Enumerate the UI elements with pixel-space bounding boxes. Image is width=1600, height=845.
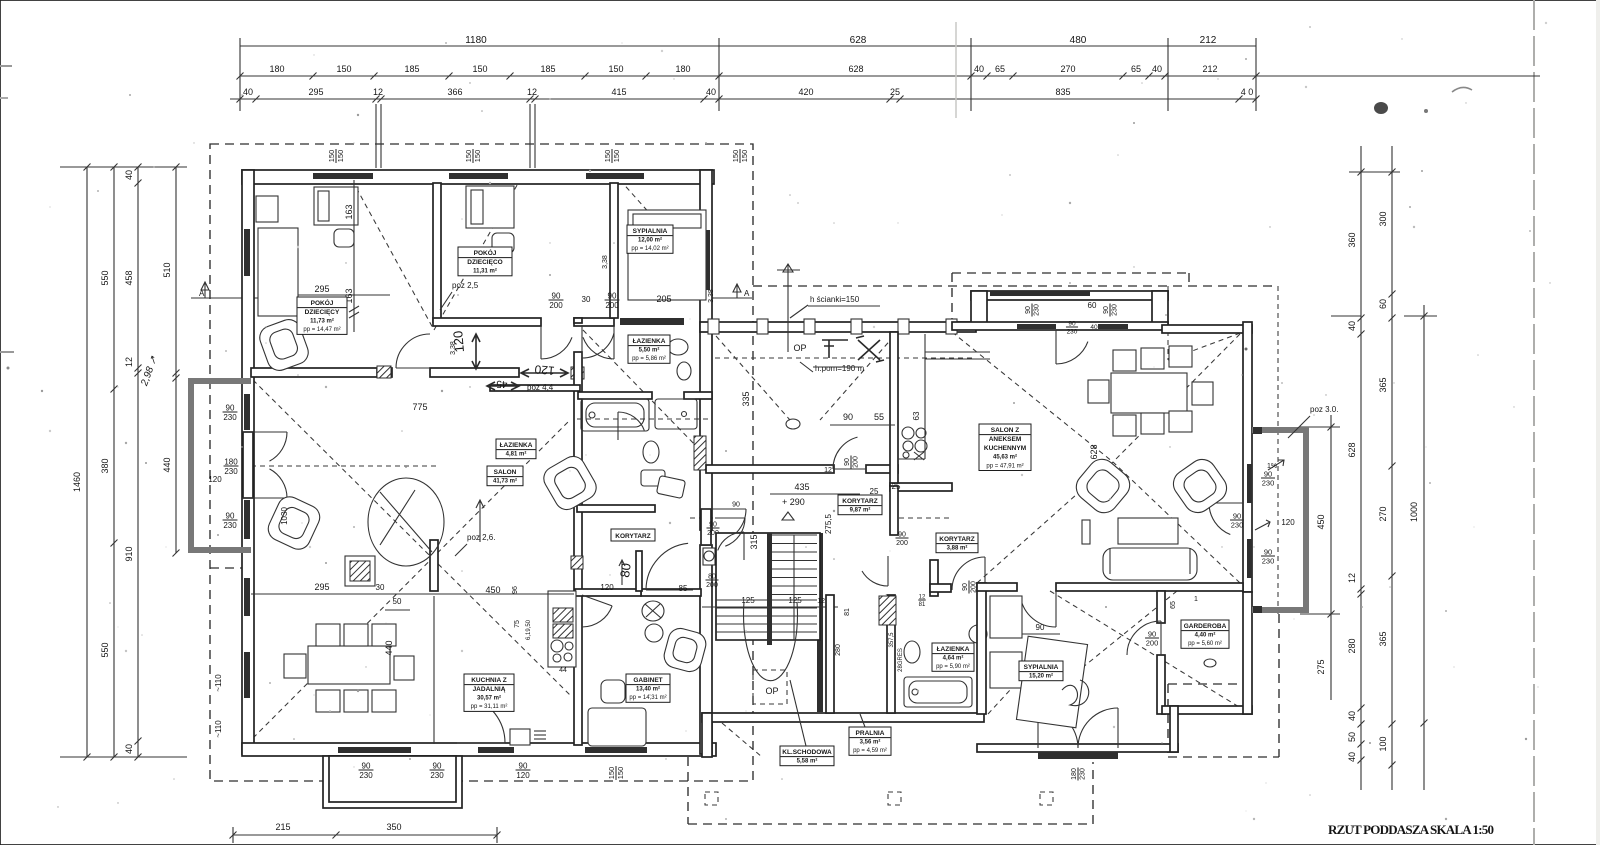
svg-text:15,20 m²: 15,20 m²: [1029, 673, 1053, 680]
gabinet chair: [661, 626, 708, 674]
middle bottom wall: [702, 713, 984, 722]
svg-text:180: 180: [675, 64, 690, 74]
svg-text:4,64 m²: 4,64 m²: [943, 655, 964, 662]
door bath2 from corridor: [617, 412, 619, 440]
wall kitchen-korytarz: [890, 483, 952, 491]
svg-text:150: 150: [731, 150, 740, 163]
svg-text:200: 200: [549, 301, 563, 310]
svg-text:200: 200: [896, 540, 908, 547]
svg-text:12,00 m²: 12,00 m²: [638, 237, 662, 244]
left building right wall: [700, 170, 712, 530]
kl schodowa label: [780, 746, 834, 766]
svg-text:SYPIALNIA: SYPIALNIA: [1024, 664, 1059, 671]
svg-text:65: 65: [1131, 64, 1141, 74]
wardrobe kids1: [258, 228, 298, 316]
middle left lower wall: [702, 713, 712, 757]
svg-text:357,5: 357,5: [889, 632, 895, 648]
svg-text:81: 81: [919, 602, 926, 608]
svg-text:+ 290: + 290: [782, 497, 805, 507]
north inner door: [1055, 330, 1057, 364]
stair treads lower: [716, 599, 817, 601]
left building top wall: [242, 170, 714, 184]
handwritten 120 horizontal arrow: [521, 369, 568, 377]
svg-text:420: 420: [798, 87, 813, 97]
construction line 163: [353, 180, 355, 332]
sypialnia south window sill: [1038, 752, 1118, 759]
svg-text:150: 150: [464, 150, 473, 163]
svg-text:295: 295: [308, 87, 323, 97]
right dim col2: [1360, 146, 1362, 790]
svg-text:150: 150: [603, 150, 612, 163]
svg-text:90: 90: [226, 404, 235, 413]
svg-text:120: 120: [1281, 518, 1295, 527]
tv cabinet right: [1082, 520, 1090, 544]
svg-text:628: 628: [1347, 442, 1357, 457]
svg-text:65: 65: [1170, 601, 1177, 609]
svg-text:835: 835: [1055, 87, 1070, 97]
svg-text:200: 200: [605, 301, 619, 310]
svg-text:200: 200: [1146, 639, 1159, 648]
svg-text:poz 4,4: poz 4,4: [527, 383, 554, 392]
svg-text:9,87 m²: 9,87 m²: [850, 507, 871, 514]
svg-text:90: 90: [844, 458, 851, 466]
door kids room 1: [396, 367, 430, 369]
east door arc: [1209, 502, 1243, 504]
left edge specks: [0, 65, 12, 67]
svg-text:360: 360: [1347, 232, 1357, 247]
top dimension chain row3: [230, 98, 1256, 100]
chimney hatch salon wall: [377, 366, 391, 378]
svg-text:280: 280: [1347, 638, 1357, 653]
svg-text:50: 50: [393, 597, 402, 606]
sypialnia scribble: [1062, 680, 1089, 706]
svg-text:DZIECIĘCO: DZIECIĘCO: [467, 259, 502, 266]
handwritten 45 arrow: [487, 382, 519, 390]
svg-text:270: 270: [1378, 506, 1388, 521]
svg-text:pp = 4,59 m²: pp = 4,59 m²: [853, 748, 887, 754]
svg-text:90: 90: [519, 762, 528, 771]
section marker A right: [706, 297, 752, 299]
stair dim line 125: [702, 606, 838, 608]
svg-text:163: 163: [344, 204, 354, 219]
svg-text:POKÓJ: POKÓJ: [311, 298, 334, 307]
svg-text:OP: OP: [765, 686, 778, 696]
svg-text:125: 125: [741, 596, 755, 605]
desk kids1: [256, 196, 278, 222]
salon round table scribble: [368, 478, 444, 566]
right building east wall: [1243, 322, 1252, 592]
kitchen counter edge: [924, 334, 926, 459]
left building bottom wall: [242, 743, 716, 756]
nightstand kids1: [334, 229, 354, 247]
svg-text:1180: 1180: [465, 35, 487, 46]
room label pokoj dzieciecy 1: [297, 297, 347, 334]
left dim col4: [175, 167, 177, 553]
left dim col3: [137, 167, 139, 757]
svg-text:96: 96: [512, 586, 519, 594]
svg-text:pp = 14,47 m²: pp = 14,47 m²: [303, 327, 340, 333]
svg-text:40: 40: [124, 170, 134, 180]
svg-text:300: 300: [1378, 211, 1388, 226]
shower hatch: [694, 436, 706, 470]
svg-text:40: 40: [1347, 752, 1357, 762]
left dim top ticks horizontal: [60, 166, 187, 168]
salon armchair1: [264, 493, 323, 553]
salon south door: [1055, 591, 1057, 627]
terrace bottom-left: [323, 756, 462, 808]
svg-text:KORYTARZ: KORYTARZ: [939, 536, 974, 543]
handwritten 120 vertical arrow: [472, 334, 480, 369]
bottom dim 215-350: [233, 834, 497, 836]
svg-text:h.pom=190 m: h.pom=190 m: [815, 364, 864, 373]
svg-text:ŁAZIENKA: ŁAZIENKA: [633, 338, 666, 345]
sypialnia right label: [1019, 661, 1063, 681]
svg-text:280: 280: [835, 644, 842, 656]
salon kitchen divider: [430, 540, 438, 591]
svg-text:GARDEROBA: GARDEROBA: [1184, 623, 1227, 630]
svg-text:40: 40: [1152, 64, 1162, 74]
bed kids room1: [314, 187, 358, 225]
svg-text:120: 120: [208, 475, 222, 484]
svg-text:44: 44: [559, 667, 567, 674]
svg-text:440: 440: [162, 457, 172, 472]
svg-text:90: 90: [1025, 306, 1032, 314]
dark band wardrobe sypialnia south: [620, 318, 684, 325]
sofa right: [1103, 548, 1197, 580]
knee wall studs: [708, 319, 719, 334]
scan fold line: [955, 22, 957, 118]
room label sypialnia top: [627, 225, 673, 253]
svg-text:~110: ~110: [214, 674, 223, 692]
dashed outline bottom-right: [1168, 683, 1244, 685]
svg-text:230: 230: [1080, 768, 1087, 780]
svg-text:4,40 m²: 4,40 m²: [1195, 632, 1216, 639]
stove kitchen right: [902, 427, 914, 439]
garderoba south wall: [1162, 706, 1252, 714]
left dim col2: [113, 167, 115, 757]
svg-text:90: 90: [608, 292, 617, 301]
svg-text:40: 40: [1090, 324, 1098, 331]
left building left wall: [242, 170, 254, 754]
svg-text:212: 212: [1200, 35, 1217, 46]
svg-text:55: 55: [874, 412, 884, 422]
stair right rail dark: [817, 533, 823, 712]
dashed balcony outline top-right: [952, 272, 1189, 274]
svg-text:275: 275: [1316, 659, 1326, 674]
svg-text:5,50 m²: 5,50 m²: [639, 347, 660, 354]
svg-text:90: 90: [1148, 630, 1156, 639]
corridor bottom wall small: [575, 589, 641, 596]
interior wall kids rooms vertical: [433, 183, 441, 322]
nightstand kids2: [492, 233, 514, 253]
roof hip diagonals salon right: [952, 332, 1113, 462]
svg-text:90: 90: [226, 512, 235, 521]
suszarnia right wall: [890, 332, 898, 486]
svg-text:180: 180: [269, 64, 284, 74]
dining chairs right: [1113, 350, 1136, 371]
svg-text:150: 150: [616, 767, 625, 780]
svg-text:KL.SCHODOWA: KL.SCHODOWA: [782, 749, 832, 756]
svg-text:180: 180: [1071, 768, 1078, 780]
dining table right: [1111, 373, 1187, 413]
svg-text:SYPIALNIA: SYPIALNIA: [633, 228, 668, 235]
svg-text:SALON: SALON: [494, 469, 517, 476]
roof hip diagonals left building: [253, 380, 570, 695]
bath2 fixtures sink wc: [668, 339, 688, 355]
top dimension chain row2: [240, 75, 1540, 77]
svg-text:230: 230: [223, 521, 237, 530]
svg-text:510: 510: [162, 262, 172, 277]
interior wall sypialnia vertical: [610, 183, 618, 318]
scan smudge top right: [1374, 102, 1388, 114]
svg-text:25: 25: [892, 482, 901, 491]
svg-text:h ścianki=150: h ścianki=150: [810, 295, 860, 304]
sypialnia window dim: [1071, 767, 1087, 780]
svg-text:90: 90: [433, 762, 442, 771]
right dim horizontal ticks: [1349, 171, 1400, 173]
svg-text:335: 335: [741, 391, 751, 406]
bathroom1 tub: [581, 399, 649, 431]
room label lazienka 481: [496, 439, 536, 459]
sypialnia south wall: [977, 744, 1178, 752]
svg-text:50: 50: [1347, 732, 1357, 742]
bed sypialnia top: [628, 210, 706, 300]
wall korytarz-sypialnia: [930, 584, 951, 592]
svg-text:DZIECIĘCY: DZIECIĘCY: [305, 309, 340, 316]
svg-text:GABINET: GABINET: [633, 677, 662, 684]
svg-text:1: 1: [1194, 596, 1198, 603]
svg-text:11,31 m²: 11,31 m²: [473, 268, 497, 275]
knee wall top middle: [700, 322, 976, 332]
gabinet north wall: [641, 589, 701, 596]
svg-text:628: 628: [1089, 444, 1099, 459]
bath2 lower fixtures: [643, 441, 659, 463]
svg-text:185: 185: [540, 64, 555, 74]
svg-text:4,81 m²: 4,81 m²: [506, 451, 527, 458]
svg-text:63: 63: [912, 411, 921, 420]
armchair right 1: [1071, 454, 1136, 519]
svg-text:1000: 1000: [1409, 502, 1419, 522]
svg-text:3,56 m²: 3,56 m²: [860, 739, 881, 746]
svg-text:OP: OP: [793, 343, 806, 353]
svg-text:30: 30: [376, 583, 385, 592]
svg-text:150: 150: [327, 150, 336, 163]
terrace corner blocks: [1253, 427, 1262, 434]
svg-text:230: 230: [1112, 304, 1119, 316]
svg-text:4 0: 4 0: [1241, 87, 1254, 97]
lazienka464 wc sink: [904, 641, 920, 663]
dining table: [308, 646, 390, 684]
svg-text:SALON Z: SALON Z: [991, 427, 1020, 434]
svg-text:poz 2,5: poz 2,5: [452, 281, 479, 290]
svg-text:270: 270: [1060, 64, 1075, 74]
coffee table right: [1118, 518, 1178, 544]
svg-text:150: 150: [612, 150, 621, 163]
svg-text:pp = 14,02 m²: pp = 14,02 m²: [631, 246, 668, 252]
sypialnia west wall: [977, 583, 986, 714]
svg-text:295: 295: [314, 284, 329, 294]
svg-text:KORYTARZ: KORYTARZ: [615, 533, 650, 540]
svg-text:28GRES: 28GRES: [898, 648, 904, 672]
svg-text:180: 180: [224, 458, 238, 467]
svg-text:90: 90: [1264, 548, 1272, 557]
stair U curve: [744, 602, 798, 681]
svg-text:380: 380: [100, 458, 110, 473]
svg-text:628: 628: [850, 35, 867, 46]
svg-text:450: 450: [1316, 514, 1326, 529]
room label lazienka 550: [628, 335, 670, 363]
svg-text:11,73 m²: 11,73 m²: [310, 318, 334, 325]
svg-text:30,57 m²: 30,57 m²: [477, 695, 501, 702]
svg-text:315: 315: [749, 534, 759, 549]
salon sideboard: [345, 556, 375, 586]
svg-text:poz 3.0.: poz 3.0.: [1310, 405, 1338, 414]
rotated window dims top wall: [327, 149, 345, 163]
svg-text:40: 40: [1347, 321, 1357, 331]
wall between bathrooms horizontal: [578, 392, 652, 399]
svg-text:125: 125: [788, 596, 802, 605]
dashed terrace line right: [1277, 286, 1279, 614]
sypialnia bed: [1016, 636, 1087, 728]
svg-text:30: 30: [582, 295, 591, 304]
svg-text:120: 120: [600, 583, 614, 592]
svg-text:60: 60: [1378, 299, 1388, 309]
dashed column squares: [705, 792, 718, 805]
svg-text:910: 910: [124, 546, 134, 561]
svg-text:25: 25: [890, 87, 900, 97]
svg-text:120: 120: [534, 362, 555, 378]
svg-text:415: 415: [611, 87, 626, 97]
svg-text:230: 230: [223, 413, 237, 422]
svg-text:90: 90: [843, 412, 853, 422]
stairwell outline: [716, 533, 820, 640]
room label kuchnia: [464, 674, 514, 711]
salon north pillars: [971, 291, 987, 325]
suszarnia door: [833, 468, 866, 470]
svg-text:pp = 47,91 m²: pp = 47,91 m²: [986, 463, 1023, 469]
suszarnia scribble: [786, 419, 800, 429]
corridor wall vertical mid: [574, 318, 582, 323]
svg-text:JADALNIĄ: JADALNIĄ: [473, 686, 506, 693]
east wall door gap: [701, 509, 711, 545]
salon north window: [990, 291, 1090, 296]
svg-text:13,40 m²: 13,40 m²: [636, 686, 660, 693]
svg-text:40: 40: [1347, 711, 1357, 721]
dashed notch left roof: [210, 567, 252, 569]
top dimension chain row1: [240, 45, 1256, 47]
right dim col 450-275: [1330, 415, 1332, 700]
door kitchen bottom: [457, 742, 505, 744]
door bathroom1: [581, 325, 583, 358]
bath lower fixtures2: [656, 475, 685, 498]
kitchen lower cabinet: [510, 729, 530, 745]
svg-text:90: 90: [552, 292, 561, 301]
svg-text:200: 200: [706, 582, 718, 589]
top dim vertical separators: [239, 38, 241, 111]
sypialnia balcony doors: [1037, 708, 1039, 748]
svg-text:A: A: [744, 289, 750, 298]
armchair kids1: [256, 316, 311, 374]
slope arrow right: [1268, 460, 1284, 470]
garderoba scribble: [1204, 659, 1216, 667]
svg-text:150: 150: [608, 64, 623, 74]
svg-text:120: 120: [516, 771, 530, 780]
svg-text:1460: 1460: [72, 472, 82, 492]
svg-text:458: 458: [124, 270, 134, 285]
svg-text:775: 775: [412, 402, 427, 412]
east wall windows: [1247, 464, 1252, 503]
svg-text:ŁAZIENKA: ŁAZIENKA: [500, 442, 533, 449]
right dim col3: [1391, 146, 1393, 790]
svg-text:480: 480: [1070, 35, 1087, 46]
svg-text:40: 40: [706, 87, 716, 97]
svg-text:230: 230: [1231, 521, 1244, 530]
garderoba door: [1160, 621, 1162, 655]
svg-text:100: 100: [1378, 736, 1388, 751]
svg-text:230: 230: [1262, 557, 1275, 566]
svg-text:PRALNIA: PRALNIA: [856, 730, 885, 737]
north window dims: [1025, 303, 1041, 316]
corridor hatch block: [571, 367, 584, 379]
salon south wall: [977, 583, 1017, 591]
left wall french door opening: [243, 432, 253, 498]
dashed roof segment middle: [753, 285, 1278, 287]
svg-text:12: 12: [527, 87, 537, 97]
svg-text:1030: 1030: [280, 507, 289, 525]
pralnia label: [849, 727, 891, 755]
interior wall below kids room2: [433, 318, 541, 326]
terrace left grey: [191, 381, 251, 550]
roof hip diagonals bedroom right: [1050, 591, 1244, 710]
svg-text:60: 60: [1088, 301, 1097, 310]
salon label right: [979, 424, 1031, 471]
bottom wall windows: [338, 747, 411, 753]
svg-text:ŁAZIENKA: ŁAZIENKA: [937, 646, 970, 653]
svg-text:150: 150: [336, 64, 351, 74]
svg-text:185: 185: [404, 64, 419, 74]
room label salon: [487, 466, 523, 486]
dashed outline bottom-middle: [687, 757, 689, 824]
svg-text:90: 90: [962, 583, 969, 591]
OP dashed box stairs: [753, 670, 787, 704]
dining chairs: [316, 624, 340, 646]
svg-text:365: 365: [1378, 631, 1388, 646]
svg-text:230: 230: [224, 467, 238, 476]
room label pokoj dzieciecy 2: [458, 247, 512, 276]
svg-text:KORYTARZ: KORYTARZ: [842, 498, 877, 505]
svg-text:90: 90: [1103, 306, 1110, 314]
svg-text:40: 40: [124, 744, 134, 754]
dashed height line middle: [690, 517, 744, 519]
svg-text:40: 40: [974, 64, 984, 74]
svg-text:350: 350: [386, 822, 401, 832]
french door arcs: [254, 431, 287, 433]
armchair right 2: [1168, 454, 1232, 518]
svg-text:150: 150: [473, 150, 482, 163]
svg-text:366: 366: [447, 87, 462, 97]
garderoba west wall: [1157, 591, 1165, 623]
bed kids room2: [466, 186, 514, 228]
svg-text:45: 45: [496, 378, 508, 389]
svg-text:215: 215: [275, 822, 290, 832]
svg-text:150: 150: [336, 150, 345, 163]
korytarz small label: [611, 529, 655, 541]
doors kids2 and sypialnia: [540, 326, 542, 359]
garderoba label: [1181, 620, 1229, 648]
svg-text:90: 90: [1233, 512, 1241, 521]
room label gabinet: [626, 674, 670, 702]
terrace right grey: [1252, 430, 1306, 610]
